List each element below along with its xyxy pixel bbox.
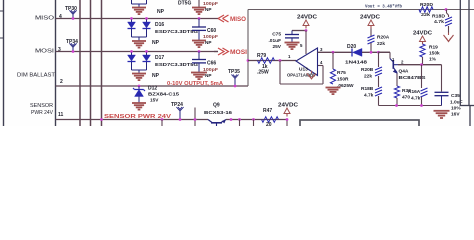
wire Q4A emitter <box>396 74 398 87</box>
wire R18B to rail <box>379 96 442 106</box>
title block box <box>300 120 419 128</box>
label R20A value <box>377 41 385 47</box>
stub x195 <box>194 108 196 127</box>
junction C66 <box>198 50 201 53</box>
stub x162 down <box>161 120 163 127</box>
svg-text:NP: NP <box>152 73 160 79</box>
label NP (off-crop pair) <box>157 9 165 15</box>
test point TP24 <box>176 107 183 120</box>
label C60 <box>207 28 216 34</box>
junction node B <box>377 51 380 54</box>
junction D17 left <box>130 50 133 53</box>
label D17 part <box>155 62 198 67</box>
connector label MOSI <box>35 49 54 55</box>
label D12 part <box>148 92 179 97</box>
label Q9 <box>213 103 220 109</box>
svg-text:470: 470 <box>402 95 410 101</box>
ground below C66 <box>191 73 207 80</box>
wire +IN <box>318 51 353 53</box>
label R19 value <box>429 51 440 57</box>
svg-text:24VDC: 24VDC <box>278 103 298 109</box>
test point TP34 label <box>66 39 78 45</box>
svg-text:150R: 150R <box>337 77 349 83</box>
label R18B <box>361 86 374 92</box>
test point TP30 label <box>65 6 77 12</box>
svg-text:24VDC: 24VDC <box>297 15 317 21</box>
wire op-amp output <box>248 60 296 62</box>
label C75 <box>272 32 281 38</box>
label R20A <box>377 35 390 41</box>
label D17 <box>155 55 164 61</box>
junction base node <box>420 63 423 66</box>
page border lower vertical <box>469 106 471 127</box>
pin number Q4A 2 <box>401 60 404 65</box>
svg-text:0-10V OUTPUT, 5mA: 0-10V OUTPUT, 5mA <box>167 81 223 87</box>
svg-text:25V: 25V <box>272 44 281 50</box>
label Q4A <box>399 69 409 75</box>
power 24VDC R19 arrow <box>420 36 426 45</box>
label R19 <box>429 45 438 51</box>
junction D12 <box>138 85 141 88</box>
label R79 wattage <box>257 70 269 76</box>
svg-text:TP35: TP35 <box>228 69 240 75</box>
vertical bus wire 2 <box>90 0 92 126</box>
wire D20 to node <box>362 51 390 53</box>
svg-text:22k: 22k <box>364 74 372 80</box>
svg-text:4.7k: 4.7k <box>364 93 374 99</box>
junction TP34 <box>72 50 75 53</box>
junction node A <box>370 51 373 54</box>
wire node corner to C35 <box>441 65 443 92</box>
svg-text:16V: 16V <box>451 112 460 118</box>
svg-text:100pF: 100pF <box>203 67 218 72</box>
wire node to Q4A <box>379 51 391 53</box>
resistor R16A <box>421 88 428 97</box>
op-amp V- pin arrow <box>307 71 316 79</box>
connector pin tick y11 <box>0 10 4 12</box>
vertical bus wire 1 <box>79 0 81 126</box>
label NP row2 <box>205 40 212 45</box>
net arrow MISO chevrons <box>218 15 229 22</box>
resistor R20A <box>368 35 375 44</box>
svg-text:D17: D17 <box>155 55 164 61</box>
pin number 11 <box>58 112 64 118</box>
junction 24VDC row4 <box>286 118 289 121</box>
test point TP24 label <box>171 102 183 108</box>
power 24VDC row4 arrow <box>284 108 290 126</box>
svg-text:.25W: .25W <box>257 70 269 76</box>
test point TP30 <box>69 10 76 18</box>
wire R20B to R18B <box>378 76 380 87</box>
wire R20A to node <box>370 43 372 52</box>
label C75 value <box>268 38 281 44</box>
svg-text:20: 20 <box>266 122 272 126</box>
label R16A <box>408 89 421 95</box>
ground above row1 <box>192 8 206 15</box>
svg-text:BZX84-C15: BZX84-C15 <box>148 92 179 97</box>
svg-text:D16: D16 <box>155 22 164 28</box>
connector label DIM BALLAST <box>17 72 56 78</box>
label D16 NP <box>152 40 160 46</box>
capacitor C75 <box>285 31 299 43</box>
label D16 part <box>155 29 198 34</box>
label Q4A part <box>399 75 427 81</box>
svg-text:DIM BALLAST: DIM BALLAST <box>17 72 56 78</box>
cap column stem above row1 <box>198 0 200 7</box>
off-crop diode pair bottom bar <box>132 0 147 7</box>
junction C60 <box>198 17 201 20</box>
svg-text:NP: NP <box>205 40 212 45</box>
svg-text:SENSOR: SENSOR <box>30 103 53 109</box>
wire R20B chain top <box>378 52 380 67</box>
pin number 1 <box>288 54 291 59</box>
test point TP35 label <box>228 69 240 75</box>
stub x252 down <box>253 120 255 127</box>
label R20B value <box>364 74 372 80</box>
svg-text:DT5G: DT5G <box>178 1 191 7</box>
svg-text:NP: NP <box>205 7 212 12</box>
resistor R20B <box>375 67 382 76</box>
label NP row1 <box>205 7 212 12</box>
svg-text:R18B: R18B <box>361 86 374 92</box>
connector label MISO <box>35 16 55 22</box>
connector label PWR 24V <box>31 110 53 116</box>
label D20 <box>347 44 356 50</box>
power 24VDC row4 label <box>278 103 298 109</box>
power 24VDC R19 label <box>413 31 432 37</box>
transistor Q4A <box>390 59 398 74</box>
ground C75 <box>285 43 300 50</box>
junction x243 <box>238 118 241 121</box>
resistor R20D <box>419 7 433 13</box>
label Q9 part <box>204 110 232 116</box>
ground D16 <box>132 41 146 48</box>
svg-text:R20A: R20A <box>377 35 390 41</box>
label R47 value <box>266 122 272 128</box>
svg-text:MISO: MISO <box>35 16 55 22</box>
resistor R19 <box>420 44 425 57</box>
connector label SENSOR <box>30 103 53 109</box>
svg-text:R20B: R20B <box>361 67 374 73</box>
zener diode D12 <box>133 86 145 103</box>
junction 24VDC opamp <box>305 29 308 32</box>
diode D17 left half <box>128 53 136 62</box>
label 100pF row2 <box>203 34 218 39</box>
svg-text:100pF: 100pF <box>203 34 218 39</box>
junction D16 left <box>130 17 133 20</box>
svg-text:Q4A: Q4A <box>399 69 409 75</box>
label R47 <box>263 108 272 114</box>
wire SENSOR PWR row <box>56 119 289 121</box>
label R37 value <box>402 95 410 101</box>
svg-text:22k: 22k <box>377 41 385 47</box>
label R75 wattage <box>337 83 354 89</box>
page border bar <box>460 105 474 107</box>
wire MISO row <box>56 18 219 20</box>
label 100pF row3 <box>203 67 218 72</box>
test point TP34 <box>69 43 76 51</box>
svg-text:100pF: 100pF <box>203 1 218 6</box>
label R18B value <box>364 93 374 99</box>
svg-text:2: 2 <box>60 79 63 85</box>
svg-text:R16A: R16A <box>408 89 421 95</box>
svg-text:11: 11 <box>58 112 64 118</box>
diode D20 <box>352 48 362 56</box>
pin number 3 <box>58 47 61 53</box>
net label MOSI <box>230 50 247 56</box>
svg-text:C75: C75 <box>272 32 281 38</box>
net label MISO <box>230 17 246 23</box>
label R75 value <box>337 77 349 83</box>
D17 common bar <box>132 62 147 73</box>
label D12 volts <box>150 98 159 103</box>
label R79 value <box>262 64 268 70</box>
label DT5G tail <box>178 1 191 7</box>
svg-text:NP: NP <box>152 40 160 46</box>
connector pin tick y38 <box>0 37 4 39</box>
test point TP35 <box>231 75 238 87</box>
svg-text:R75: R75 <box>337 70 346 76</box>
ground (off-crop pair) <box>132 8 146 15</box>
D16 common bar <box>132 29 147 41</box>
capacitor C66 <box>192 52 206 73</box>
capacitor C35 <box>435 92 449 105</box>
connector block left edge <box>3 0 5 126</box>
wire R75 drop <box>332 52 334 69</box>
resistor R47 <box>262 117 279 123</box>
label D20 part <box>345 60 367 66</box>
svg-text:24VDC: 24VDC <box>360 15 380 21</box>
ground R75 <box>326 88 341 95</box>
svg-text:R47: R47 <box>263 108 272 114</box>
label D16 <box>155 22 164 28</box>
svg-text:MOSI: MOSI <box>35 49 54 55</box>
feedback wire horizontal y10 <box>248 9 474 11</box>
svg-text:C66: C66 <box>207 61 216 67</box>
vertical bus wire 3 <box>101 0 103 126</box>
capacitor C60 <box>192 19 206 41</box>
svg-text:BCX53-16: BCX53-16 <box>204 110 232 116</box>
svg-text:C35: C35 <box>451 93 460 99</box>
wire R16A to rail <box>421 97 423 106</box>
page border outer vertical <box>468 0 470 106</box>
junction x252 <box>252 118 255 121</box>
svg-text:MOSI: MOSI <box>230 50 247 56</box>
resistor R18D <box>445 17 452 26</box>
feedback loop wire <box>280 61 323 85</box>
junction stub x195 <box>194 118 197 121</box>
label 100pF row1 <box>203 1 218 6</box>
junction D17 right <box>145 50 148 53</box>
label R20B <box>361 67 374 73</box>
power 24VDC opamp arrow <box>303 20 309 29</box>
svg-text:ESD7C3.3DT5G: ESD7C3.3DT5G <box>155 62 198 67</box>
resistor R79 <box>258 58 275 64</box>
svg-text:.01uF: .01uF <box>268 38 281 44</box>
svg-text:4.7k: 4.7k <box>411 96 421 102</box>
wire R18D drop <box>447 10 449 18</box>
pin number 4 <box>320 60 323 65</box>
op-amp U1 triangle <box>296 48 318 76</box>
wire 24VDC to C75 <box>292 30 306 32</box>
junction TP35 <box>234 85 237 88</box>
svg-text:ESD7C3.3DT5G: ESD7C3.3DT5G <box>155 29 198 34</box>
pin number 5 <box>300 43 303 48</box>
junction R18D top <box>445 8 448 11</box>
power 24VDC opamp label <box>297 15 317 21</box>
label R20D value <box>421 12 431 17</box>
svg-text:15V: 15V <box>150 98 159 103</box>
junction x162 <box>161 118 164 121</box>
op-amp V+ wire <box>305 31 307 55</box>
pin number 2 <box>60 79 63 85</box>
label R20D <box>420 2 434 7</box>
junction bus3 row4 <box>100 118 103 121</box>
net label SENSOR PWR 24V <box>104 114 172 120</box>
label R18D <box>432 14 446 19</box>
page border inner vertical <box>459 0 461 106</box>
pin number Q4A 1 <box>392 57 395 62</box>
label R75 <box>337 70 346 76</box>
label C66 <box>207 61 216 67</box>
label D12 <box>148 86 157 92</box>
junction R79 left <box>247 59 250 62</box>
wire base node down <box>421 65 423 88</box>
transistor Q4A collector wire <box>389 52 391 58</box>
junction D16 right <box>145 17 148 20</box>
pin number 4 <box>59 14 62 20</box>
diode D17 right half <box>143 53 151 62</box>
power 24VDC r20a arrow <box>368 20 374 29</box>
power 24VDC r20a label <box>360 15 380 21</box>
resistor R18B <box>375 87 382 96</box>
label R19 tol <box>429 57 437 63</box>
label C35 volts <box>451 112 460 118</box>
diode D16 right half <box>143 20 151 29</box>
resistor R75 <box>330 69 335 84</box>
label NP row3 <box>205 73 212 78</box>
junction TP24 <box>179 118 182 121</box>
svg-text:R18D: R18D <box>432 14 446 19</box>
feedback wire vertical x248 <box>247 10 249 87</box>
wire base rail <box>398 64 442 66</box>
resistor R37 <box>394 86 399 98</box>
pin number 3 <box>320 47 323 52</box>
junction R75 top <box>332 51 335 54</box>
diode D16 left half <box>128 20 136 29</box>
svg-text:PWR 24V: PWR 24V <box>31 110 53 116</box>
ground arrow R18D <box>444 33 454 42</box>
svg-text:4.7k: 4.7k <box>434 19 444 24</box>
junction TP30 <box>72 17 75 20</box>
stub x243 down <box>239 120 241 127</box>
junction Q9 emitter <box>230 118 233 121</box>
svg-text:150k: 150k <box>429 51 440 57</box>
net label 0-10V OUTPUT <box>167 81 223 87</box>
label C35 tol <box>451 106 461 112</box>
svg-text:NP: NP <box>157 9 165 15</box>
label C35 value <box>450 100 463 106</box>
label Vout formula <box>365 4 402 10</box>
label R18D value <box>434 19 444 24</box>
svg-text:1%: 1% <box>429 57 437 63</box>
net arrow MOSI chevrons <box>214 48 229 55</box>
label C35 <box>451 93 460 99</box>
connector block right edge <box>55 0 57 126</box>
wire 24VDC to R20A <box>370 29 372 37</box>
label D17 NP <box>152 73 160 79</box>
wire R19 to node <box>422 57 424 65</box>
svg-text:Q9: Q9 <box>213 103 220 109</box>
label U13 part <box>287 73 316 78</box>
transistor Q9 <box>208 120 226 127</box>
wire MOSI row <box>56 51 219 53</box>
label U13 <box>299 67 308 73</box>
ground D12 <box>132 103 146 110</box>
label R16A value <box>411 96 421 102</box>
svg-text:NP: NP <box>205 73 212 78</box>
svg-text:MISO: MISO <box>230 17 246 23</box>
ground below C60 <box>192 41 206 48</box>
junction R16A rail <box>420 104 423 107</box>
ground rail end <box>434 111 450 118</box>
junction R37 rail <box>395 104 398 107</box>
label R37 <box>402 88 411 94</box>
ground D17 <box>132 74 146 81</box>
svg-text:Vout = 3.48*Vfb: Vout = 3.48*Vfb <box>365 4 402 10</box>
svg-text:10%: 10% <box>451 106 461 112</box>
svg-text:22k: 22k <box>421 12 431 17</box>
label R79 <box>257 53 266 59</box>
label C75 volts <box>272 44 281 50</box>
wire R37 to rail <box>396 98 398 106</box>
svg-text:1N4148: 1N4148 <box>345 60 367 66</box>
svg-text:BC847BS: BC847BS <box>399 75 427 81</box>
wire R18D to gnd <box>448 26 450 33</box>
wire DIM BALLAST row <box>56 85 249 87</box>
svg-text:R19: R19 <box>429 45 438 51</box>
junction feedback tap <box>279 59 282 62</box>
